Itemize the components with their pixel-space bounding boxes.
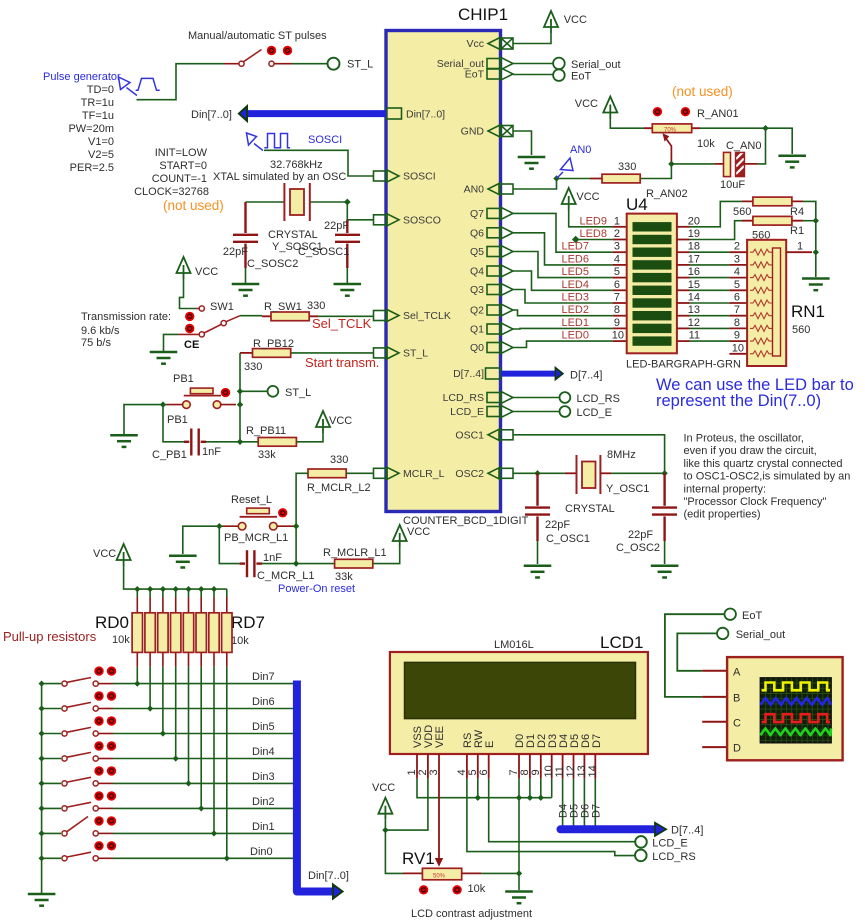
svg-text:Reset_L: Reset_L [231,494,272,506]
wire lower contact to ground [164,334,179,351]
pin Q3 [487,284,513,296]
ground PB1 [110,435,138,447]
svg-text:CRYSTAL: CRYSTAL [565,503,615,515]
resistor R_PB11 [258,438,296,447]
wire switch to ST_L terminal [274,63,292,65]
svg-text:LCD_RS: LCD_RS [577,393,620,405]
svg-text:330: 330 [618,161,636,173]
pin Q5 [487,246,513,258]
svg-text:OSC2: OSC2 [455,468,484,480]
pin OSC1 [488,429,513,441]
power VCC below chip [393,525,407,547]
svg-text:PB1: PB1 [167,414,188,426]
capacitor C_SOSC2 (left) [233,202,258,268]
svg-text:Pull-up resistors: Pull-up resistors [3,629,97,644]
wire cap to ground [245,268,247,283]
resistor R_SW1 [262,315,318,317]
svg-text:LED1: LED1 [561,317,589,329]
svg-text:internal property:: internal property: [684,483,767,495]
svg-text:AN0: AN0 [464,184,485,196]
wire PB1 left down to cap row [163,405,184,442]
svg-text:LCD_E: LCD_E [577,407,612,419]
svg-text:R_SW1: R_SW1 [264,301,302,313]
svg-text:10k: 10k [468,883,486,895]
wire C_OSC2 to ground [664,541,666,564]
terminal ST_L (PB1) [268,386,279,397]
svg-text:In Proteus, the oscillator,: In Proteus, the oscillator, [684,433,804,445]
bus Din[7..0] vertical (bottom left) [297,681,333,892]
svg-text:Din4: Din4 [252,746,275,758]
svg-text:C_PB1: C_PB1 [152,449,187,461]
ground C_OSC1 [524,566,552,578]
power VCC (R_PB11) [316,411,330,433]
resistor RD7 [226,597,228,667]
pin SOSCI [374,170,400,182]
svg-text:(not used): (not used) [672,84,733,99]
svg-text:R_MCLR_L1: R_MCLR_L1 [323,547,387,559]
resistor RD1 [149,597,151,667]
svg-text:20: 20 [688,215,700,227]
wire U4 pin20 to R4 [690,201,743,226]
wire Serial_out to terminal [513,63,554,65]
svg-text:VCC: VCC [195,266,218,278]
pin Vcc (power, pin symbol with X box) [488,38,513,50]
switch arm [244,50,262,62]
svg-text:33k: 33k [335,571,353,583]
svg-text:like this quartz crystal conne: like this quartz crystal connected [684,458,843,470]
svg-text:MCLR_L: MCLR_L [403,468,445,480]
svg-text:Q7: Q7 [470,208,484,220]
svg-text:R_AN02: R_AN02 [646,188,688,200]
scope trace B (blue sine) [760,698,831,705]
svg-text:19: 19 [688,228,700,240]
svg-text:Din0: Din0 [250,846,273,858]
wire R_AN02 to AN0 pin [513,179,590,190]
row Din3 [42,782,61,784]
svg-text:15: 15 [688,279,700,291]
svg-text:13: 13 [688,304,700,316]
svg-text:Power-On reset: Power-On reset [278,583,355,595]
scope trace C (red square) [762,714,831,722]
pin AN0 (input) [488,183,513,195]
svg-text:VCC: VCC [93,548,116,560]
svg-text:Q2: Q2 [470,305,484,317]
pin LCD_RS [487,392,513,404]
pin Q4 [487,265,513,277]
pin Serial_out (output) [487,58,513,70]
svg-text:ST_L: ST_L [347,59,373,71]
svg-text:LED3: LED3 [561,292,589,304]
terminal EoT [553,69,565,81]
wire Q7 to U4 pin3 (LED7) [513,213,613,252]
wire VCC to U4 pin1 [569,210,613,227]
svg-text:9: 9 [734,330,740,342]
svg-text:LED5: LED5 [561,266,589,278]
resistor RD5 [200,597,202,667]
svg-text:18: 18 [688,241,700,253]
svg-text:Vcc: Vcc [466,38,484,50]
row Din5 [42,733,61,735]
svg-text:ST_L: ST_L [285,387,311,399]
capacitor C_OSC2 [652,473,677,541]
svg-text:EoT: EoT [742,610,762,622]
svg-text:D[7..4]: D[7..4] [453,368,484,380]
pin Q0 [487,342,513,354]
node crystal right junction [661,470,667,476]
ground (LCD/RV1) [505,892,533,904]
svg-text:VCC: VCC [407,526,430,538]
power VCC pull-ups [117,544,131,566]
svg-text:INIT=LOW: INIT=LOW [155,147,208,159]
svg-text:1: 1 [614,215,620,227]
labels LED9..LED0 (red) [561,215,607,341]
svg-text:C_AN0: C_AN0 [726,140,761,152]
note text: Proteus oscillator [684,433,851,521]
scope screen [760,678,831,743]
svg-text:EoT: EoT [465,69,485,81]
svg-text:V2=5: V2=5 [88,149,114,161]
crystal Y_OSC1 [565,455,611,494]
pulse generator icon [119,77,160,96]
terminal LCD_E [560,406,571,417]
svg-text:"Processor Clock Frequency": "Processor Clock Frequency" [684,496,827,508]
svg-text:LED9: LED9 [579,215,607,227]
svg-text:D: D [733,743,741,755]
SOSCI script icon (blue) [247,133,291,151]
svg-text:10: 10 [612,330,624,342]
wire D3 down [551,779,553,798]
svg-text:LCD_RS: LCD_RS [443,392,484,404]
svg-text:PB1: PB1 [173,373,194,385]
svg-text:A: A [733,667,741,679]
svg-text:PW=20m: PW=20m [68,123,114,135]
wire EoT to terminal [513,74,554,76]
scope pin stubs [702,671,727,747]
svg-text:OSC1: OSC1 [455,429,484,441]
svg-text:9: 9 [614,317,620,329]
svg-text:C_SOSC2: C_SOSC2 [247,258,298,270]
wire left contact down to cap [219,526,239,563]
node R1 rail junction [813,218,819,224]
svg-text:(not used): (not used) [163,198,224,213]
svg-text:RV1: RV1 [402,849,435,868]
svg-text:TF=1u: TF=1u [82,110,114,122]
pin OSC2 [488,467,513,479]
svg-text:R_AN01: R_AN01 [697,108,739,120]
svg-text:represent the Din(7..0): represent the Din(7..0) [656,392,821,410]
svg-text:E: E [484,741,496,748]
svg-text:560: 560 [733,206,751,218]
svg-text:LCD_E: LCD_E [450,406,484,418]
LED bargraph U4 body [627,214,677,354]
svg-text:CLOCK=32768: CLOCK=32768 [134,186,209,198]
Din switch rows [39,666,294,861]
resistor RD4 [188,597,190,667]
wire Serial_out to scope A [677,633,717,670]
resistors RD0-RD7 (vertical array) [132,589,232,858]
svg-text:Q1: Q1 [470,324,484,336]
node junction on vertical [293,560,299,566]
pin D[7..4] (bus pin) [486,368,501,379]
ground (pot right) [778,156,806,168]
labels D4-D7 (rotated) [558,804,603,818]
pin Sel_TCLK [374,310,400,322]
svg-text:9.6 kb/s: 9.6 kb/s [81,325,120,337]
svg-text:8: 8 [614,304,620,316]
node ST_L branch [237,388,243,394]
node VDD junction [382,827,388,833]
wire D2 down [540,779,542,798]
power VCC (pot) [603,97,617,119]
switch right contact [269,61,274,66]
power VCC (chip Vcc) [544,11,558,33]
node crystal left junction [534,470,540,476]
svg-text:2: 2 [734,241,740,253]
terminal Serial_out [553,58,565,70]
chip CHIP1 body [386,31,501,512]
pin MCLR_L [374,467,400,479]
wires D4-D7 to bus [563,779,596,826]
svg-text:17: 17 [688,253,700,265]
wire C_OSC1 to ground [537,541,539,564]
node wiper junction [668,161,674,167]
wire Q2 to U4 pin8 (LED2) [513,310,613,316]
wires U4 pins 18-11 to RN1 pins 2-9 [690,252,730,341]
wire R_PB12 to ST_L pin [291,352,374,354]
wire R_MCLR_L1 to VCC [373,547,400,564]
svg-text:D[7..4]: D[7..4] [570,369,602,381]
svg-text:D7: D7 [591,804,603,818]
node junction crystal right [344,199,351,206]
svg-text:RN1: RN1 [791,302,825,321]
svg-text:XTAL simulated by an OSC: XTAL simulated by an OSC [213,171,346,183]
crystal Y_SOSC1 [284,183,309,221]
capacitor C_PB1 [184,429,206,456]
wire Q1 to U4 pin9 (LED1) [513,327,613,330]
row Din0 [42,857,61,859]
svg-text:560: 560 [792,324,810,336]
svg-text:EoT: EoT [571,71,591,83]
svg-text:4: 4 [734,266,740,278]
svg-text:Din2: Din2 [252,796,275,808]
svg-text:5: 5 [614,266,620,278]
svg-text:Serial_out: Serial_out [736,629,786,641]
RN1 common rail bar [773,248,781,356]
svg-text:10k: 10k [697,138,715,150]
node RN1 pin1 rail junction [813,249,819,255]
svg-text:Din5: Din5 [252,721,275,733]
push button PB_MCR_L1 [247,508,270,514]
U4 pin numbers left 1-10 [612,215,624,341]
wire Vcc pin to VCC arrow [513,33,551,44]
node reset left junction [216,523,222,529]
svg-text:(edit properties): (edit properties) [684,509,761,521]
row Din1 (switch tilted open) [42,832,61,834]
wire VSS to gnd line [417,779,552,798]
wire E to LCD_E terminal [489,779,635,842]
wire R4 right to ground rail [803,201,816,277]
row Din2 [42,807,61,809]
svg-text:7: 7 [614,292,620,304]
svg-text:RD0: RD0 [95,613,129,632]
wire Q0 to U4 pin10 (LED0) [513,341,613,347]
svg-text:10uF: 10uF [720,179,745,191]
svg-text:LED6: LED6 [561,253,589,265]
wire Q5 to U4 pin5 (LED5) [513,252,613,278]
resistor R_AN02 [590,178,640,180]
wire R_PB11 to VCC [296,433,323,442]
svg-text:330: 330 [307,300,325,312]
wire U4 pin19 to R1 [690,221,743,240]
switch SW1 actuator bolts [185,312,194,321]
svg-text:CE: CE [184,339,199,351]
wire junction down to C_AN0 right [758,128,766,164]
scope grid [760,678,831,743]
svg-text:D7: D7 [591,734,603,748]
wire D0 down to RV1 row and ground [518,779,520,874]
pin Q6 [487,227,513,239]
svg-text:5: 5 [734,279,740,291]
resistor R_PB12 [240,352,253,354]
terminal LCD_RS [560,392,571,403]
U4 pin numbers right 20-11 [688,215,700,341]
wire cap to R_PB11 [206,441,258,443]
svg-text:R_MCLR_L2: R_MCLR_L2 [307,482,371,494]
svg-text:TD=0: TD=0 [87,84,114,96]
bus D[7..4] from chip [501,371,555,377]
svg-text:Q3: Q3 [470,284,484,296]
potentiometer R_AN01 [644,127,700,129]
oscilloscope body [727,657,843,760]
resistor network RN1 body [747,240,786,366]
pot wiper arrow [666,139,671,164]
LCD pin stubs (red) [417,754,595,779]
RN1 pin1 stub to rail [786,251,812,253]
svg-text:Din7: Din7 [252,671,275,683]
svg-text:1nF: 1nF [202,446,221,458]
wire OSC2 to crystal left [513,472,565,474]
nodes on gnd line [475,795,481,801]
svg-text:Din3: Din3 [252,771,275,783]
resistor RD6 [213,597,215,667]
resistor RD2 [162,597,164,667]
capacitor C_SOSC1 (right) [335,220,360,268]
push button PB1 [190,388,213,394]
wire cap to ground [346,268,348,283]
capacitor C_AN0 (electrolytic) [715,163,758,165]
terminal LCD_E (bottom) [635,836,647,848]
svg-text:RD7: RD7 [231,613,265,632]
U4 left pin stubs [613,227,627,341]
svg-text:33k: 33k [258,449,276,461]
svg-text:11: 11 [689,330,700,342]
svg-text:VEE: VEE [434,726,446,748]
wire Q6 to U4 pin4 (LED6) [513,233,613,265]
svg-text:3: 3 [614,241,620,253]
node junction at vertical [237,439,243,445]
pin ST_L [374,347,400,359]
potentiometer RV1 [403,872,422,874]
svg-text:16: 16 [688,266,700,278]
bus Din[7..0] top [246,110,386,117]
svg-text:CRYSTAL: CRYSTAL [268,229,318,241]
scope trace D (green sine) [760,728,831,735]
svg-text:Din[7..0]: Din[7..0] [191,109,232,121]
svg-text:U4: U4 [626,195,648,214]
U4 right pin stubs [677,227,690,341]
pin GND (power, X box) [488,125,513,137]
svg-text:LED8: LED8 [579,228,607,240]
LCD screen [405,662,636,718]
svg-text:GND: GND [461,126,485,138]
svg-text:Transmission rate:: Transmission rate: [81,311,171,323]
svg-text:even if you draw the circuit,: even if you draw the circuit, [684,445,817,457]
wire RS to LCD_RS terminal [467,779,635,856]
terminal EoT (scope) [725,609,736,620]
wire vertical PB1 net [239,353,241,442]
svg-text:7: 7 [734,304,740,316]
node AN0 script attach [553,175,559,181]
svg-text:TR=1u: TR=1u [81,97,114,109]
resistor R_MCLR_L1 [335,559,373,568]
svg-text:VCC: VCC [372,782,395,794]
svg-text:Q4: Q4 [470,266,484,278]
svg-text:AN0: AN0 [570,144,591,156]
svg-text:SW1: SW1 [210,301,234,313]
wire EoT to scope B [665,614,725,697]
RN1 internal zigzag resistors [750,249,772,357]
svg-text:LED0: LED0 [561,330,589,342]
svg-text:Din1: Din1 [252,821,275,833]
left ground bus vertical [41,684,43,893]
wire Q3 to U4 pin7 (LED3) [513,290,613,304]
svg-text:LED7: LED7 [561,241,589,253]
svg-text:Q6: Q6 [470,227,484,239]
svg-text:SOSCO: SOSCO [403,214,441,226]
pin SOSCO [374,214,400,226]
RN1 left pin stubs 2-10 [729,252,747,354]
rail junction nodes [134,586,217,592]
AN0 script icon (blue) [557,158,574,179]
wire LCD_RS to terminal [513,397,560,399]
svg-text:3: 3 [734,253,740,265]
svg-text:COUNT=-1: COUNT=-1 [152,173,207,185]
wire PB1 left to ground [163,404,167,406]
terminal Serial_out (scope) [717,628,728,639]
svg-text:10: 10 [732,342,744,354]
svg-text:9: 9 [530,769,542,775]
resistor R4 [742,200,803,202]
svg-text:14: 14 [688,292,700,304]
svg-text:70%: 70% [664,128,677,134]
wire OSC1 to crystal right [513,435,665,474]
svg-text:Q0: Q0 [470,342,484,354]
svg-text:C_SOSC1: C_SOSC1 [298,246,349,258]
resistor RD0 [136,597,138,667]
node reset right junction [293,523,299,529]
resistor RD3 [175,597,177,667]
svg-text:Serial_out: Serial_out [571,59,621,71]
svg-text:330: 330 [330,454,348,466]
LCD1 body [390,652,648,754]
svg-text:R1: R1 [790,225,804,237]
wire VDD to VCC [385,779,428,831]
scope channel labels [733,667,741,755]
pin EoT (output) [487,68,513,80]
svg-text:R_PB12: R_PB12 [253,338,294,350]
wire GND pin to ground [513,131,532,155]
wire to ST_L terminal [240,390,267,392]
